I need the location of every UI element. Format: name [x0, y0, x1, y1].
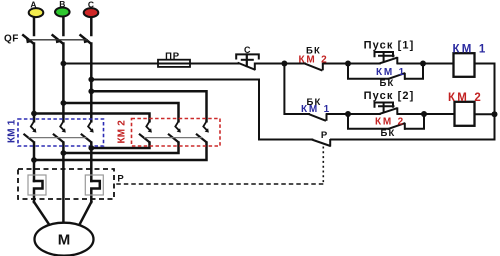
svg-text:КМ 1: КМ 1: [301, 104, 331, 115]
svg-text:КМ 2: КМ 2: [117, 120, 128, 144]
svg-text:Р: Р: [321, 130, 328, 141]
svg-text:P: P: [117, 174, 124, 185]
svg-text:QF: QF: [4, 34, 19, 45]
svg-text:БК: БК: [380, 128, 395, 139]
svg-text:КМ 2: КМ 2: [375, 117, 405, 128]
svg-text:A: A: [30, 0, 36, 10]
svg-text:C: C: [88, 0, 94, 10]
svg-text:Пуск [2]: Пуск [2]: [364, 90, 415, 102]
svg-text:КМ 1: КМ 1: [453, 44, 488, 56]
svg-text:B: B: [59, 0, 65, 9]
svg-text:БК: БК: [379, 78, 394, 89]
svg-text:КМ 1: КМ 1: [7, 119, 18, 143]
svg-text:С: С: [244, 45, 251, 55]
svg-text:КМ 1: КМ 1: [376, 67, 406, 78]
svg-text:ПР: ПР: [165, 51, 180, 62]
svg-text:КМ 2: КМ 2: [448, 92, 483, 104]
svg-text:КМ 2: КМ 2: [299, 55, 329, 66]
svg-text:М: М: [58, 232, 71, 249]
svg-text:Пуск [1]: Пуск [1]: [364, 40, 415, 52]
